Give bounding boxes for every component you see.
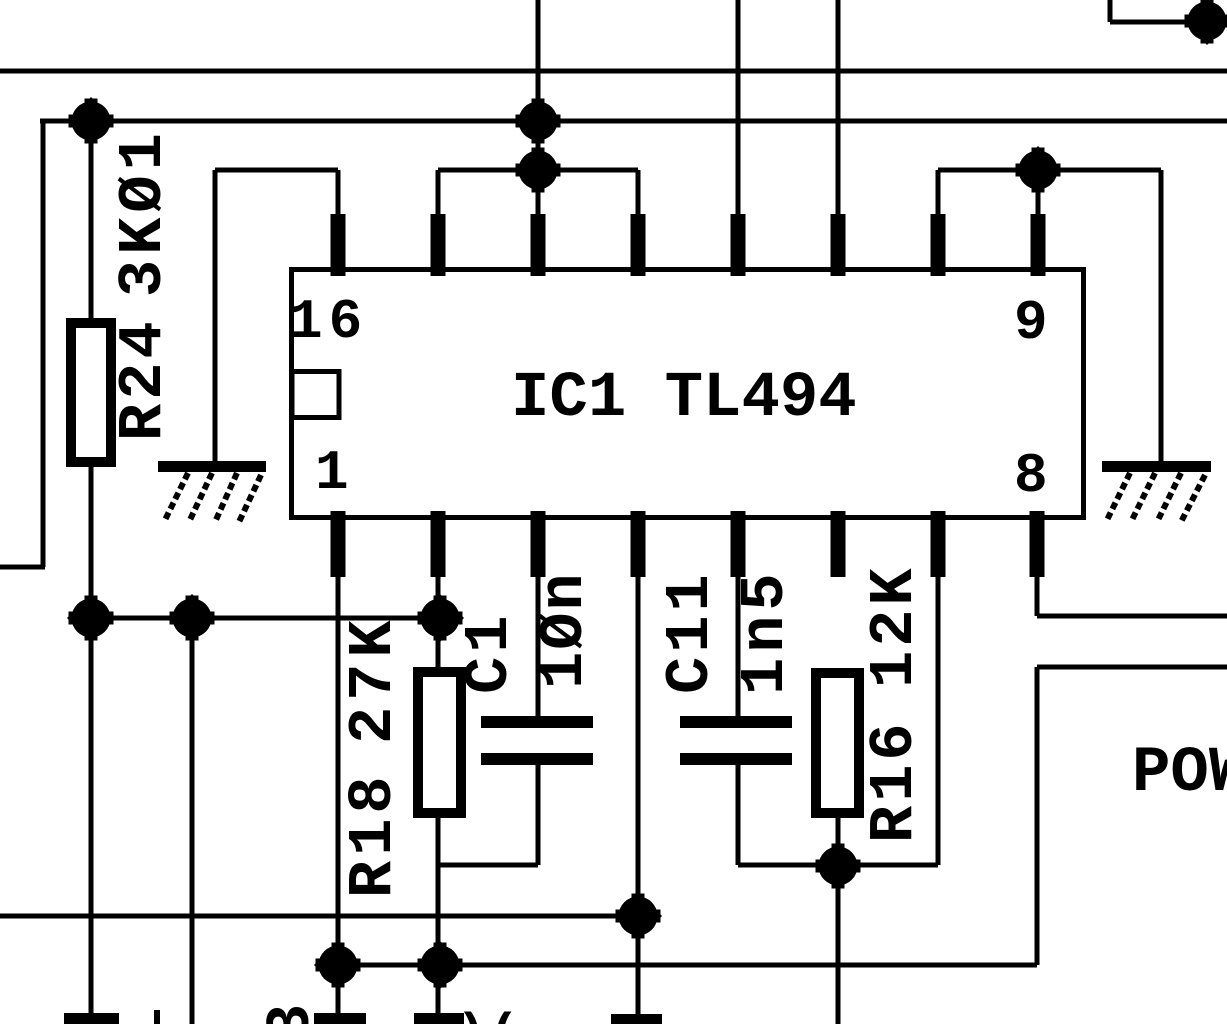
svg-text:8: 8 — [1014, 444, 1048, 508]
svg-text:(: ( — [488, 1006, 519, 1024]
svg-text:): ) — [456, 1006, 487, 1024]
svg-text:POWER: POWER — [1132, 738, 1227, 810]
svg-text:3KØ1: 3KØ1 — [108, 128, 179, 297]
svg-text:12K: 12K — [859, 564, 930, 688]
svg-text:1n5: 1n5 — [730, 568, 801, 695]
svg-text:C1: C1 — [454, 612, 525, 694]
svg-text:C11: C11 — [655, 570, 726, 694]
svg-text:R18: R18 — [338, 771, 409, 898]
svg-text:1: 1 — [315, 441, 349, 505]
svg-text:IC1 TL494: IC1 TL494 — [511, 363, 857, 435]
svg-text:9: 9 — [1014, 291, 1048, 355]
svg-text:3: 3 — [256, 1004, 327, 1024]
svg-text:R16: R16 — [859, 719, 930, 843]
svg-text:1Øn: 1Øn — [529, 571, 600, 689]
svg-text:R24: R24 — [108, 317, 179, 441]
svg-text:27K: 27K — [338, 614, 409, 744]
svg-text:16: 16 — [289, 290, 368, 354]
